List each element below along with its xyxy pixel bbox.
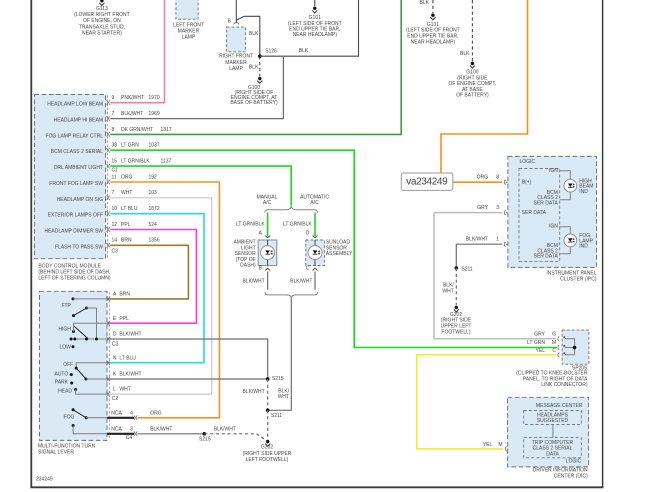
svg-text:14: 14 xyxy=(112,238,118,244)
sensor SUNLOAD SENSOR ASSEMBLY xyxy=(306,240,353,272)
svg-text:OF BATTERY): OF BATTERY) xyxy=(456,93,489,99)
svg-text:G113: G113 xyxy=(96,6,108,12)
svg-text:192: 192 xyxy=(149,174,158,180)
svg-text:L: L xyxy=(113,387,116,393)
svg-text:LOGIC: LOGIC xyxy=(520,159,536,165)
svg-text:LOGIC: LOGIC xyxy=(566,459,582,465)
switch FTP (flash to pass) xyxy=(61,297,107,339)
svg-text:LT GRN: LT GRN xyxy=(121,143,139,149)
svg-text:OFF: OFF xyxy=(63,362,73,368)
ground G100 (right instance) xyxy=(449,62,497,99)
wire BLK/WHT lever pin D to S215 xyxy=(107,339,268,379)
svg-text:G202: G202 xyxy=(261,445,273,451)
svg-text:FOOTWELL): FOOTWELL) xyxy=(441,329,471,335)
node S211 (right instance) xyxy=(455,266,473,272)
svg-text:C1: C1 xyxy=(112,167,119,173)
svg-text:NEAR STARTER): NEAR STARTER) xyxy=(82,31,122,37)
svg-text:SUGGESTED: SUGGESTED xyxy=(537,418,569,424)
wire ORG to IPC pin 8 B(+) xyxy=(453,174,519,184)
svg-text:ORG: ORG xyxy=(477,174,489,180)
svg-text:S211: S211 xyxy=(461,266,473,272)
svg-text:M: M xyxy=(498,442,502,448)
svg-text:DATA: DATA xyxy=(546,451,559,457)
svg-text:15: 15 xyxy=(112,159,118,165)
svg-text:LAMP: LAMP xyxy=(229,66,243,72)
svg-text:524: 524 xyxy=(149,222,158,228)
ground G101 (right instance) xyxy=(406,14,460,46)
svg-text:8: 8 xyxy=(112,127,115,133)
svg-text:NEAR HEADLAMP): NEAR HEADLAMP) xyxy=(411,40,456,46)
wire LT GRN 1037 (BCM CLASS 2 SERIAL) BCM pin 38 xyxy=(51,143,557,348)
svg-text:HEADLAMP HI BEAM: HEADLAMP HI BEAM xyxy=(54,118,103,124)
wire BLK to ground G101 (right instance) xyxy=(419,0,432,13)
ground G113 xyxy=(74,0,129,37)
svg-text:SER DATA: SER DATA xyxy=(534,200,559,206)
svg-text:C4: C4 xyxy=(126,435,133,441)
ground G202 (right instance) xyxy=(441,306,472,336)
svg-text:MESSAGE CENTER: MESSAGE CENTER xyxy=(536,403,583,409)
svg-text:HEAD: HEAD xyxy=(58,388,72,394)
svg-text:BCM CLASS 2 SERIAL: BCM CLASS 2 SERIAL xyxy=(51,149,103,155)
svg-text:C: C xyxy=(306,266,310,272)
svg-text:GRY: GRY xyxy=(534,331,545,337)
wire YEL SP205 pin C to DIC pin M xyxy=(417,348,557,451)
svg-text:38: 38 xyxy=(112,143,118,149)
svg-text:LEFT OF STEERING COLUMN): LEFT OF STEERING COLUMN) xyxy=(38,275,110,281)
svg-text:3: 3 xyxy=(130,426,133,432)
svg-text:LT BLU: LT BLU xyxy=(119,355,136,361)
wire ORG 192 (FRONT FOG LAMP SW) BCM pin 11 xyxy=(49,174,219,417)
lamp RIGHT FRONT MARKER LAMP xyxy=(219,27,259,72)
svg-text:D: D xyxy=(306,231,310,237)
svg-text:LEFT FOOTWELL): LEFT FOOTWELL) xyxy=(246,457,289,463)
svg-text:IND: IND xyxy=(579,244,588,250)
svg-text:1970: 1970 xyxy=(149,95,160,101)
wire BLK/WHT S211 to ground G202 (dashed) xyxy=(267,410,269,439)
svg-text:S215: S215 xyxy=(272,376,284,382)
wire NCA 3 (fog switch) BLK/WHT to S215 xyxy=(107,426,204,441)
svg-text:BLK: BLK xyxy=(249,65,259,71)
wire LT GRN/BLK to sunload sensor pin D xyxy=(283,213,317,238)
wire GRY IPC pin 3 to SP205 pin G xyxy=(434,205,556,339)
wire BLK/WHT S211 to ground G202 (dashed, right) xyxy=(442,268,456,305)
svg-text:NCA: NCA xyxy=(111,410,122,416)
wire WHT 103 (HEADLAMP ON SIG) BCM pin 7 xyxy=(57,190,212,394)
svg-text:3: 3 xyxy=(496,205,499,211)
svg-text:WHT: WHT xyxy=(442,289,453,295)
node S215 (bottom instance) xyxy=(199,432,211,443)
svg-text:DASH): DASH) xyxy=(240,263,256,269)
svg-text:BRN: BRN xyxy=(121,238,132,244)
svg-text:HIGH: HIGH xyxy=(58,327,71,333)
svg-text:1317: 1317 xyxy=(161,127,172,133)
svg-text:1969: 1969 xyxy=(149,111,160,117)
wire LT GRN to SP205 pin M (label) xyxy=(527,337,559,357)
svg-text:D: D xyxy=(113,332,117,338)
svg-text:7: 7 xyxy=(112,111,115,117)
svg-text:BLK: BLK xyxy=(249,31,259,37)
wire BLK to right front marker lamp pin B xyxy=(228,0,260,56)
svg-text:(LOWER RIGHT FRONT: (LOWER RIGHT FRONT xyxy=(74,12,129,18)
svg-text:IND: IND xyxy=(579,189,588,195)
svg-text:HEADLAMP DIMMER SW: HEADLAMP DIMMER SW xyxy=(44,229,103,235)
svg-text:A/C: A/C xyxy=(310,200,319,206)
node S215 xyxy=(266,376,284,382)
ground G202 (footwell, bottom instance) xyxy=(243,440,292,463)
instrument panel cluster IPC xyxy=(508,156,597,282)
svg-text:C2: C2 xyxy=(112,396,119,402)
svg-text:SER DATA: SER DATA xyxy=(534,254,559,260)
svg-text:ORG: ORG xyxy=(121,174,133,180)
svg-text:PPL: PPL xyxy=(121,222,131,228)
svg-text:FRONT FOG LAMP SW: FRONT FOG LAMP SW xyxy=(49,181,103,187)
wire BLK/WHT S215 to ground G202 (dashed, bottom) xyxy=(204,426,266,440)
wire BLK from S126 to ground G100 xyxy=(249,56,260,76)
wire BLK/WHT sensor grounds to S211 xyxy=(242,268,317,410)
svg-text:M: M xyxy=(552,340,556,346)
wire BLK/WHT lever pin K to S215 xyxy=(107,378,268,380)
svg-text:CLUSTER (IPC): CLUSTER (IPC) xyxy=(560,276,597,282)
svg-text:S126: S126 xyxy=(265,48,277,54)
wire BLK from S126 to top right xyxy=(260,0,359,56)
wire BLK/WHT IPC pin 1 to S211 xyxy=(456,237,519,268)
svg-text:OF ENGINE, ON: OF ENGINE, ON xyxy=(83,18,121,24)
svg-text:EXTERIOR LAMPS OFF: EXTERIOR LAMPS OFF xyxy=(48,213,103,219)
svg-text:BLK/WHT: BLK/WHT xyxy=(242,389,264,395)
svg-text:ORG: ORG xyxy=(150,410,162,416)
svg-text:AUTO: AUTO xyxy=(54,371,68,377)
svg-text:va234249: va234249 xyxy=(406,177,448,188)
IPC logic pin labels B(+) and SER DATA xyxy=(522,179,547,216)
svg-text:C3: C3 xyxy=(112,341,119,347)
svg-text:CENTER (DIC): CENTER (DIC) xyxy=(554,473,588,479)
svg-text:PARK: PARK xyxy=(55,380,69,386)
svg-text:12: 12 xyxy=(112,222,118,228)
svg-text:WHT: WHT xyxy=(121,190,132,196)
wire DK GRN/WHT 1317 (FOG LAMP RELAY CTRL) BCM pin 8 xyxy=(45,0,401,139)
svg-text:N: N xyxy=(113,355,117,361)
lever connector pins A/E/D/N/K/L labels xyxy=(106,292,141,403)
svg-text:1037: 1037 xyxy=(149,143,160,149)
svg-text:FOG LAMP RELAY CTRL: FOG LAMP RELAY CTRL xyxy=(45,133,103,139)
svg-text:B(+): B(+) xyxy=(522,179,532,185)
svg-text:NEAR HEADLAMP): NEAR HEADLAMP) xyxy=(293,32,338,38)
connector C1 label xyxy=(112,167,119,173)
svg-text:103: 103 xyxy=(149,190,158,196)
svg-text:YEL: YEL xyxy=(536,348,546,354)
multi-function turn signal lever switch assembly xyxy=(38,291,109,455)
wire BRN 1356 (FLASH TO PASS SW) BCM pin 14 xyxy=(55,238,188,299)
wire BLK/WHT 1969 (HEADLAMP HI BEAM) BCM pin 7 xyxy=(54,56,284,123)
node S211 xyxy=(266,409,283,419)
svg-text:BLK/WHT: BLK/WHT xyxy=(290,278,312,284)
svg-text:MARKER: MARKER xyxy=(225,60,247,66)
svg-text:WHT: WHT xyxy=(278,394,289,400)
svg-text:(RIGHT SIDE UPPER: (RIGHT SIDE UPPER xyxy=(243,451,292,457)
ground G101 (left instance) xyxy=(288,0,342,38)
svg-text:NCA: NCA xyxy=(111,426,122,432)
wire LT GRN/BLK 1137 (DRL AMBIENT LIGHT) BCM pin 15 xyxy=(54,159,291,206)
svg-text:FOG: FOG xyxy=(64,415,75,421)
svg-text:LT GRN: LT GRN xyxy=(527,340,545,346)
svg-text:IGN: IGN xyxy=(549,168,558,174)
svg-text:1872: 1872 xyxy=(149,206,160,212)
wire LT GRN/BLK to ambient light sensor pin A xyxy=(236,213,270,238)
svg-text:1: 1 xyxy=(496,237,499,243)
svg-text:LT GRN/BLK: LT GRN/BLK xyxy=(236,222,265,228)
svg-text:A/C: A/C xyxy=(263,200,272,206)
svg-text:DK GRN/WHT: DK GRN/WHT xyxy=(121,127,153,133)
wire NCA 4 (fog switch) with ORG lead xyxy=(107,410,162,420)
ground G100 (engine compartment) xyxy=(230,77,278,106)
wire split to MANUAL A/C and AUTOMATIC A/C options xyxy=(257,195,330,213)
svg-text:TRANSAXLE STUD,: TRANSAXLE STUD, xyxy=(79,24,125,30)
svg-text:GRY: GRY xyxy=(477,205,488,211)
svg-text:9: 9 xyxy=(112,95,115,101)
svg-text:LAMP: LAMP xyxy=(182,34,196,40)
wire BLK to ground G100 (right instance) xyxy=(460,0,472,62)
svg-text:BASE OF BATTERY): BASE OF BATTERY) xyxy=(230,100,278,106)
svg-text:PPL: PPL xyxy=(119,316,129,322)
svg-text:234249: 234249 xyxy=(36,476,53,482)
svg-text:FTP: FTP xyxy=(61,303,71,309)
splice pack SP205 xyxy=(516,330,589,388)
svg-text:C: C xyxy=(552,348,556,354)
sensor AMBIENT LIGHT SENSOR xyxy=(233,240,276,272)
svg-text:10: 10 xyxy=(112,206,118,212)
svg-text:BLK: BLK xyxy=(419,0,429,6)
indicator lamp HIGH BEAM IND xyxy=(534,168,594,207)
svg-text:BLK/WHT: BLK/WHT xyxy=(150,426,172,432)
lamp LEFT FRONT MARKER LAMP xyxy=(173,0,204,40)
svg-text:4: 4 xyxy=(130,410,133,416)
wire PPL 524 (HEADLAMP DIMMER SW) BCM pin 12 xyxy=(44,222,196,323)
svg-text:8: 8 xyxy=(496,174,499,180)
svg-text:WHT: WHT xyxy=(119,387,130,393)
svg-text:SER DATA: SER DATA xyxy=(522,210,547,216)
svg-text:11: 11 xyxy=(112,174,117,180)
svg-text:S215: S215 xyxy=(199,437,211,443)
svg-text:BLK/WHT: BLK/WHT xyxy=(242,278,264,284)
switch headlamp dimmer HIGH/LOW xyxy=(58,323,107,350)
svg-text:LT GRN/BLK: LT GRN/BLK xyxy=(121,159,150,165)
svg-text:7: 7 xyxy=(112,190,115,196)
connector C3 label (BCM side) xyxy=(112,249,119,255)
svg-text:SIGNAL LEVER: SIGNAL LEVER xyxy=(38,450,74,456)
wire BLK/WHT S215 to S211 (dashed) xyxy=(242,379,267,410)
svg-text:1137: 1137 xyxy=(161,159,172,165)
driver information center DIC xyxy=(508,397,589,479)
svg-text:C3: C3 xyxy=(112,249,119,255)
switch FOG lamps xyxy=(64,408,108,434)
svg-text:S211: S211 xyxy=(271,413,283,419)
label box va234249 xyxy=(401,173,453,190)
svg-text:YEL: YEL xyxy=(483,442,493,448)
wire PNK/WHT 1970 (HEADLAMP LOW BEAM) BCM pin 9 xyxy=(47,0,164,108)
svg-text:ASSEMBLY: ASSEMBLY xyxy=(326,251,353,257)
svg-text:PNK/WHT: PNK/WHT xyxy=(121,95,144,101)
body control module BCM xyxy=(35,95,111,282)
svg-text:BLK/WHT: BLK/WHT xyxy=(214,426,236,432)
svg-text:FLASH TO PASS SW: FLASH TO PASS SW xyxy=(55,244,103,250)
svg-text:BLK/WHT: BLK/WHT xyxy=(119,332,141,338)
svg-text:LT BLU: LT BLU xyxy=(121,206,138,212)
svg-text:BLK/WHT: BLK/WHT xyxy=(466,237,488,243)
svg-text:LINK CONNECTOR): LINK CONNECTOR) xyxy=(541,382,588,388)
svg-text:BLK: BLK xyxy=(299,48,309,54)
wire LT BLU 1872 (EXTERIOR LAMPS OFF) BCM pin 10 xyxy=(48,206,204,363)
svg-text:G: G xyxy=(552,331,556,337)
wire ORG battery feed from top xyxy=(441,0,528,173)
svg-text:IGN: IGN xyxy=(549,224,558,230)
svg-text:BLK: BLK xyxy=(460,51,470,57)
indicator lamp FOG LAMP IND xyxy=(534,224,594,260)
node S126 xyxy=(258,48,277,58)
switch headlamp OFF/AUTO/PARK/HEAD xyxy=(54,362,107,394)
svg-text:1356: 1356 xyxy=(149,238,160,244)
svg-text:DRL AMBIENT LIGHT: DRL AMBIENT LIGHT xyxy=(54,165,103,171)
svg-text:LOW: LOW xyxy=(60,344,72,350)
svg-text:BLK/WHT: BLK/WHT xyxy=(121,111,143,117)
svg-text:RIGHT FRONT: RIGHT FRONT xyxy=(219,54,253,60)
svg-text:BLK/WHT: BLK/WHT xyxy=(119,372,141,378)
svg-text:HEADLAMP ON SIG: HEADLAMP ON SIG xyxy=(57,197,103,203)
svg-text:BRN: BRN xyxy=(119,292,130,298)
svg-text:HEADLAMP LOW BEAM: HEADLAMP LOW BEAM xyxy=(47,102,103,108)
svg-text:LT GRN/BLK: LT GRN/BLK xyxy=(283,222,312,228)
